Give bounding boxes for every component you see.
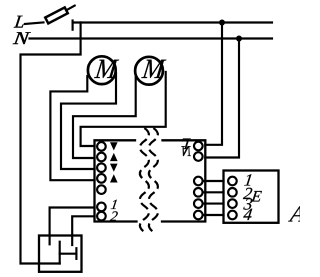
wire pressure switch contact 1 to block bbox=[50, 208, 95, 245]
connector A box bbox=[224, 171, 279, 223]
node junction on N line bbox=[236, 36, 242, 42]
terminal c right bbox=[194, 199, 203, 208]
actuator stem bbox=[60, 253, 77, 255]
terminal a right bbox=[194, 177, 203, 186]
wire L drop to pressure switch bbox=[21, 23, 81, 264]
wire M1 right lead to block row 3 bbox=[61, 73, 116, 169]
wire M1 left lead to block row 4 bbox=[50, 76, 94, 180]
terminal 1 left bbox=[97, 142, 106, 151]
terminal 3 left bbox=[97, 163, 106, 172]
break squiggle left bbox=[140, 128, 149, 232]
motor M2 bbox=[135, 54, 167, 85]
wire stub row d bbox=[203, 214, 224, 216]
terminal N right bbox=[194, 152, 203, 161]
wire M2 right lead to block row 1 bbox=[81, 72, 166, 146]
arrow marker row2 up bbox=[110, 153, 118, 161]
terminal 6 left (1) bbox=[97, 203, 106, 212]
connector pin 4 bbox=[228, 211, 237, 220]
actuator bar bbox=[75, 248, 77, 259]
fuse F1 (fuse-switch blade, open) bbox=[45, 6, 74, 24]
fixed contact tick bbox=[72, 21, 74, 30]
wire N to terminal block right bbox=[205, 39, 239, 158]
wire L line bbox=[73, 21, 272, 23]
wire stub row b bbox=[203, 191, 224, 193]
switch moving contact bbox=[59, 242, 61, 264]
connector pin 2 bbox=[228, 188, 237, 197]
arrow marker row3 down bbox=[110, 164, 118, 172]
wire N line bbox=[30, 37, 273, 39]
wire L lead-in bbox=[25, 22, 44, 24]
terminal 7 left (2) bbox=[97, 212, 106, 221]
wire M2 left lead to block row 2 bbox=[73, 77, 136, 158]
connector pin 1 bbox=[228, 177, 237, 186]
terminal 2 left bbox=[97, 153, 106, 162]
connector pin 3 bbox=[228, 199, 237, 208]
terminal 5 left bbox=[97, 185, 106, 194]
wire stub row c bbox=[203, 203, 224, 205]
motor M1 bbox=[88, 54, 120, 85]
terminal 4 left bbox=[97, 174, 106, 183]
terminal block X1 left outline bbox=[95, 140, 137, 221]
arrow marker row1 down bbox=[110, 142, 118, 150]
wire L to terminal block right bbox=[205, 23, 222, 145]
wire pressure switch contact 2 to block bbox=[72, 216, 94, 245]
arrow marker row4 up bbox=[110, 174, 118, 182]
terminal d right bbox=[194, 211, 203, 220]
terminal block X1 right outline bbox=[162, 140, 205, 221]
break squiggle right bbox=[149, 128, 158, 232]
terminal L right bbox=[194, 142, 203, 151]
wire stub row a bbox=[203, 180, 224, 182]
pressure switch B1 box bbox=[39, 236, 82, 272]
terminal b right bbox=[194, 188, 203, 197]
node junction on L line bbox=[219, 20, 225, 26]
